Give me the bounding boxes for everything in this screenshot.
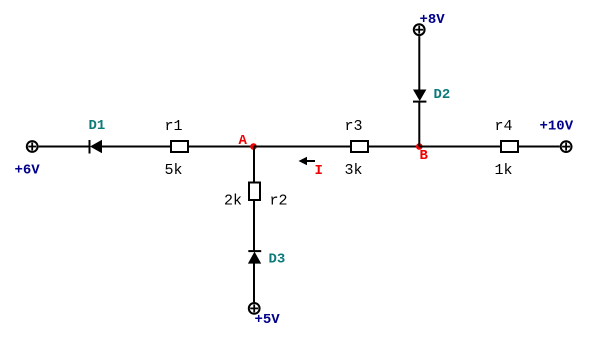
node A junction dot: [250, 143, 257, 150]
node B junction dot: [416, 143, 423, 150]
terminal +10V (circled plus): [561, 141, 572, 152]
wire: node B to resistor r4: [419, 146, 500, 148]
svg-text:r2: r2: [270, 193, 288, 210]
svg-text:5k: 5k: [165, 162, 183, 179]
svg-text:r4: r4: [495, 118, 513, 135]
diode D1 (cathode bar left, triangle pointing left): [90, 140, 103, 154]
svg-text:r1: r1: [165, 118, 183, 135]
svg-text:+5V: +5V: [255, 312, 281, 328]
wire: r3 to node B: [369, 146, 419, 148]
wire: r4 to +10V terminal: [519, 146, 560, 148]
svg-text:3k: 3k: [345, 162, 363, 179]
wire: D2 up to +8V terminal: [418, 36, 420, 89]
svg-text:2k: 2k: [224, 193, 242, 210]
terminal +5V (circled plus): [249, 303, 260, 314]
resistor r4: [501, 141, 518, 152]
svg-text:+6V: +6V: [15, 163, 41, 179]
wire: node A to resistor r3: [254, 146, 350, 148]
svg-text:1k: 1k: [495, 162, 513, 179]
svg-text:D1: D1: [89, 118, 106, 134]
diode D2 (triangle pointing down, cathode bar at bottom): [413, 90, 426, 102]
diode D3 (cathode bar at top, triangle pointing up): [248, 251, 261, 264]
resistor r1: [171, 141, 188, 152]
svg-text:D2: D2: [434, 87, 451, 103]
svg-text:+10V: +10V: [540, 119, 574, 135]
svg-text:+8V: +8V: [420, 12, 446, 28]
current arrow I (pointing left): [299, 157, 316, 165]
resistor r3: [351, 141, 368, 152]
svg-text:B: B: [420, 148, 429, 164]
svg-text:A: A: [239, 133, 248, 149]
svg-text:I: I: [315, 163, 323, 179]
svg-text:r3: r3: [345, 118, 363, 135]
wire: +6V terminal to diode D1: [39, 146, 89, 148]
svg-text:D3: D3: [269, 251, 286, 267]
wire: node A down to resistor r2: [253, 147, 255, 182]
wire: r1 to node A: [189, 146, 254, 148]
wire: node B up to diode D2: [418, 102, 420, 147]
wire: r2 down to diode D3: [253, 201, 255, 251]
wire: D1 to resistor r1: [102, 146, 170, 148]
wire: D3 down to +5V terminal: [253, 264, 255, 303]
terminal +6V (circled plus): [27, 141, 38, 152]
terminal +8V (circled plus): [414, 24, 425, 35]
resistor r2 (vertical): [249, 183, 260, 201]
